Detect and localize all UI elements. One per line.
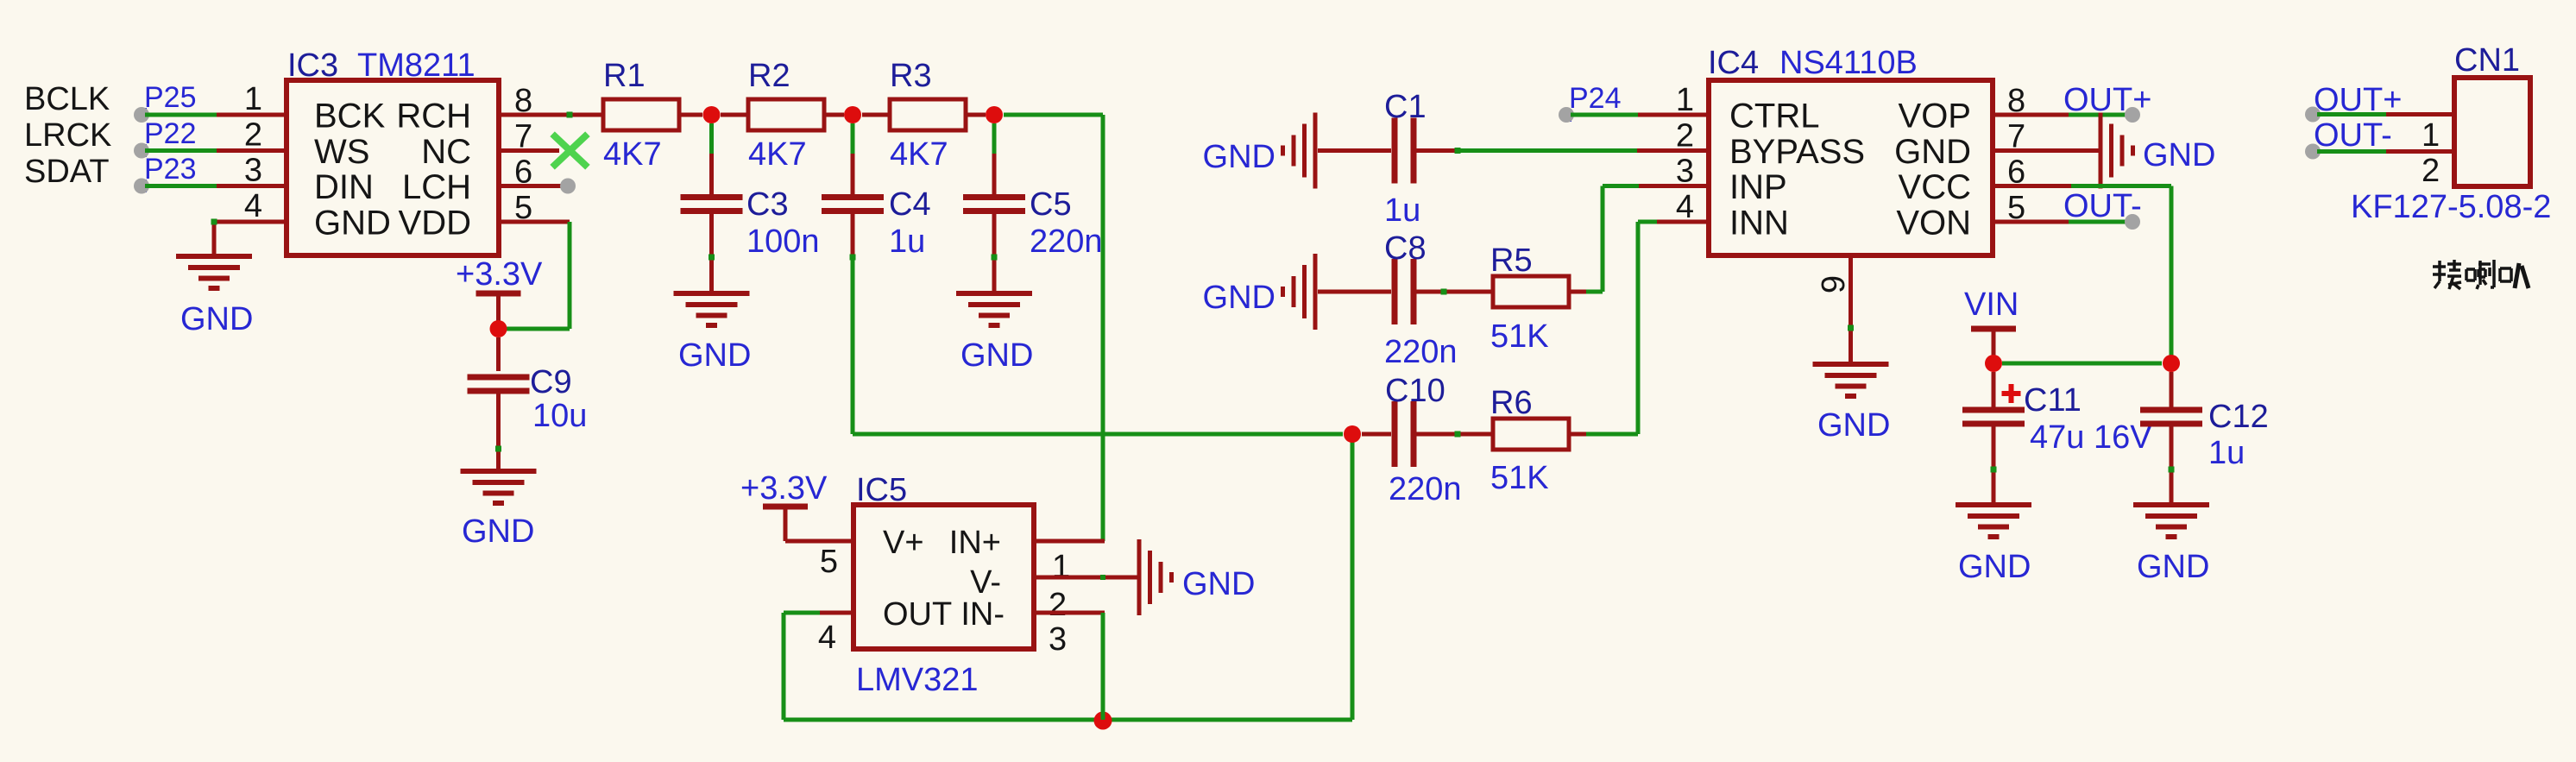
svg-text:GND: GND [960, 337, 1033, 374]
svg-text:VON: VON [1896, 205, 1971, 242]
svg-text:1: 1 [1052, 549, 1070, 585]
svg-text:RCH: RCH [396, 98, 471, 135]
svg-text:LRCK: LRCK [24, 117, 111, 154]
svg-text:OUT+: OUT+ [2314, 82, 2402, 118]
svg-text:VCC: VCC [1899, 168, 1971, 206]
svg-text:P22: P22 [144, 117, 197, 150]
svg-text:C8: C8 [1384, 230, 1427, 267]
svg-text:VOP: VOP [1899, 98, 1971, 135]
svg-text:OUT: OUT [883, 596, 952, 633]
svg-text:DIN: DIN [314, 168, 374, 206]
svg-text:C5: C5 [1030, 186, 1072, 223]
svg-text:1: 1 [2422, 117, 2440, 154]
svg-text:4: 4 [244, 188, 262, 224]
svg-text:C1: C1 [1384, 89, 1427, 125]
svg-text:V+: V+ [883, 525, 924, 561]
svg-text:OUT+: OUT+ [2063, 82, 2151, 118]
svg-text:GND: GND [1894, 133, 1971, 171]
svg-text:GND: GND [1817, 407, 1890, 444]
svg-text:GND: GND [180, 301, 253, 337]
svg-text:R1: R1 [603, 58, 646, 94]
svg-text:LCH: LCH [402, 168, 471, 206]
svg-text:GND: GND [1203, 139, 1275, 175]
svg-text:C11: C11 [2024, 382, 2082, 419]
svg-text:GND: GND [1203, 280, 1275, 316]
svg-text:R6: R6 [1490, 385, 1533, 421]
svg-text:220n: 220n [1030, 224, 1103, 260]
svg-text:BCK: BCK [314, 98, 386, 135]
svg-text:51K: 51K [1490, 318, 1549, 355]
svg-text:1u: 1u [2208, 435, 2245, 471]
svg-text:P24: P24 [1569, 82, 1622, 115]
svg-text:R2: R2 [748, 58, 790, 94]
svg-text:OUT-: OUT- [2063, 188, 2142, 224]
svg-text:KF127-5.08-2: KF127-5.08-2 [2351, 189, 2551, 225]
svg-text:220n: 220n [1389, 471, 1462, 507]
svg-text:BYPASS: BYPASS [1729, 133, 1865, 171]
svg-text:IN+: IN+ [949, 525, 1001, 561]
svg-text:2: 2 [1049, 587, 1067, 623]
svg-text:GND: GND [2137, 549, 2209, 585]
svg-text:1u: 1u [1384, 192, 1420, 229]
svg-text:C10: C10 [1385, 373, 1445, 409]
svg-text:INN: INN [1729, 205, 1789, 242]
svg-text:4: 4 [818, 620, 836, 656]
svg-text:9: 9 [1816, 275, 1852, 293]
svg-text:R3: R3 [890, 58, 932, 94]
svg-text:51K: 51K [1490, 460, 1549, 496]
svg-text:220n: 220n [1384, 334, 1458, 370]
svg-text:LMV321: LMV321 [856, 662, 979, 698]
svg-text:1: 1 [244, 81, 262, 117]
svg-text:+3.3V: +3.3V [740, 470, 828, 507]
svg-text:OUT-: OUT- [2314, 117, 2392, 154]
svg-text:NS4110B: NS4110B [1779, 45, 1918, 81]
svg-text:CTRL: CTRL [1729, 98, 1819, 135]
svg-text:100n: 100n [746, 224, 820, 260]
svg-text:1u: 1u [889, 224, 925, 260]
svg-text:R5: R5 [1490, 242, 1533, 279]
svg-text:GND: GND [462, 513, 534, 550]
svg-text:2: 2 [1676, 118, 1694, 154]
svg-text:2: 2 [244, 117, 262, 154]
svg-text:CN1: CN1 [2454, 42, 2520, 79]
svg-text:WS: WS [314, 133, 369, 171]
svg-text:10u: 10u [532, 398, 587, 434]
svg-text:C12: C12 [2208, 399, 2269, 435]
svg-text:GND: GND [314, 205, 391, 242]
svg-text:VIN: VIN [1964, 287, 2019, 323]
svg-text:BCLK: BCLK [24, 81, 110, 117]
svg-text:2: 2 [2422, 153, 2440, 189]
svg-text:INP: INP [1729, 168, 1787, 206]
svg-text:NC: NC [421, 133, 471, 171]
svg-text:SDAT: SDAT [24, 154, 110, 190]
svg-text:C9: C9 [530, 364, 572, 400]
svg-text:3: 3 [1049, 621, 1067, 658]
svg-text:GND: GND [1958, 549, 2031, 585]
svg-text:V-: V- [970, 564, 1001, 601]
svg-text:C3: C3 [746, 186, 789, 223]
svg-text:+3.3V: +3.3V [456, 256, 543, 293]
svg-text:47u 16V: 47u 16V [2030, 419, 2152, 456]
svg-text:3: 3 [244, 153, 262, 189]
svg-text:GND: GND [1182, 566, 1255, 602]
svg-text:4K7: 4K7 [890, 136, 948, 173]
svg-text:VDD: VDD [399, 205, 471, 242]
svg-text:IN-: IN- [960, 596, 1005, 633]
svg-text:5: 5 [820, 544, 838, 580]
svg-text:IC3: IC3 [287, 47, 338, 84]
svg-text:4K7: 4K7 [748, 136, 807, 173]
svg-text:TM8211: TM8211 [357, 47, 476, 84]
svg-text:IC5: IC5 [856, 472, 907, 508]
svg-text:GND: GND [2143, 137, 2215, 173]
svg-text:IC4: IC4 [1708, 45, 1759, 81]
svg-text:4K7: 4K7 [603, 136, 662, 173]
svg-text:P23: P23 [144, 153, 197, 186]
svg-text:GND: GND [678, 337, 751, 374]
svg-text:P25: P25 [144, 81, 197, 114]
svg-text:C4: C4 [889, 186, 931, 223]
